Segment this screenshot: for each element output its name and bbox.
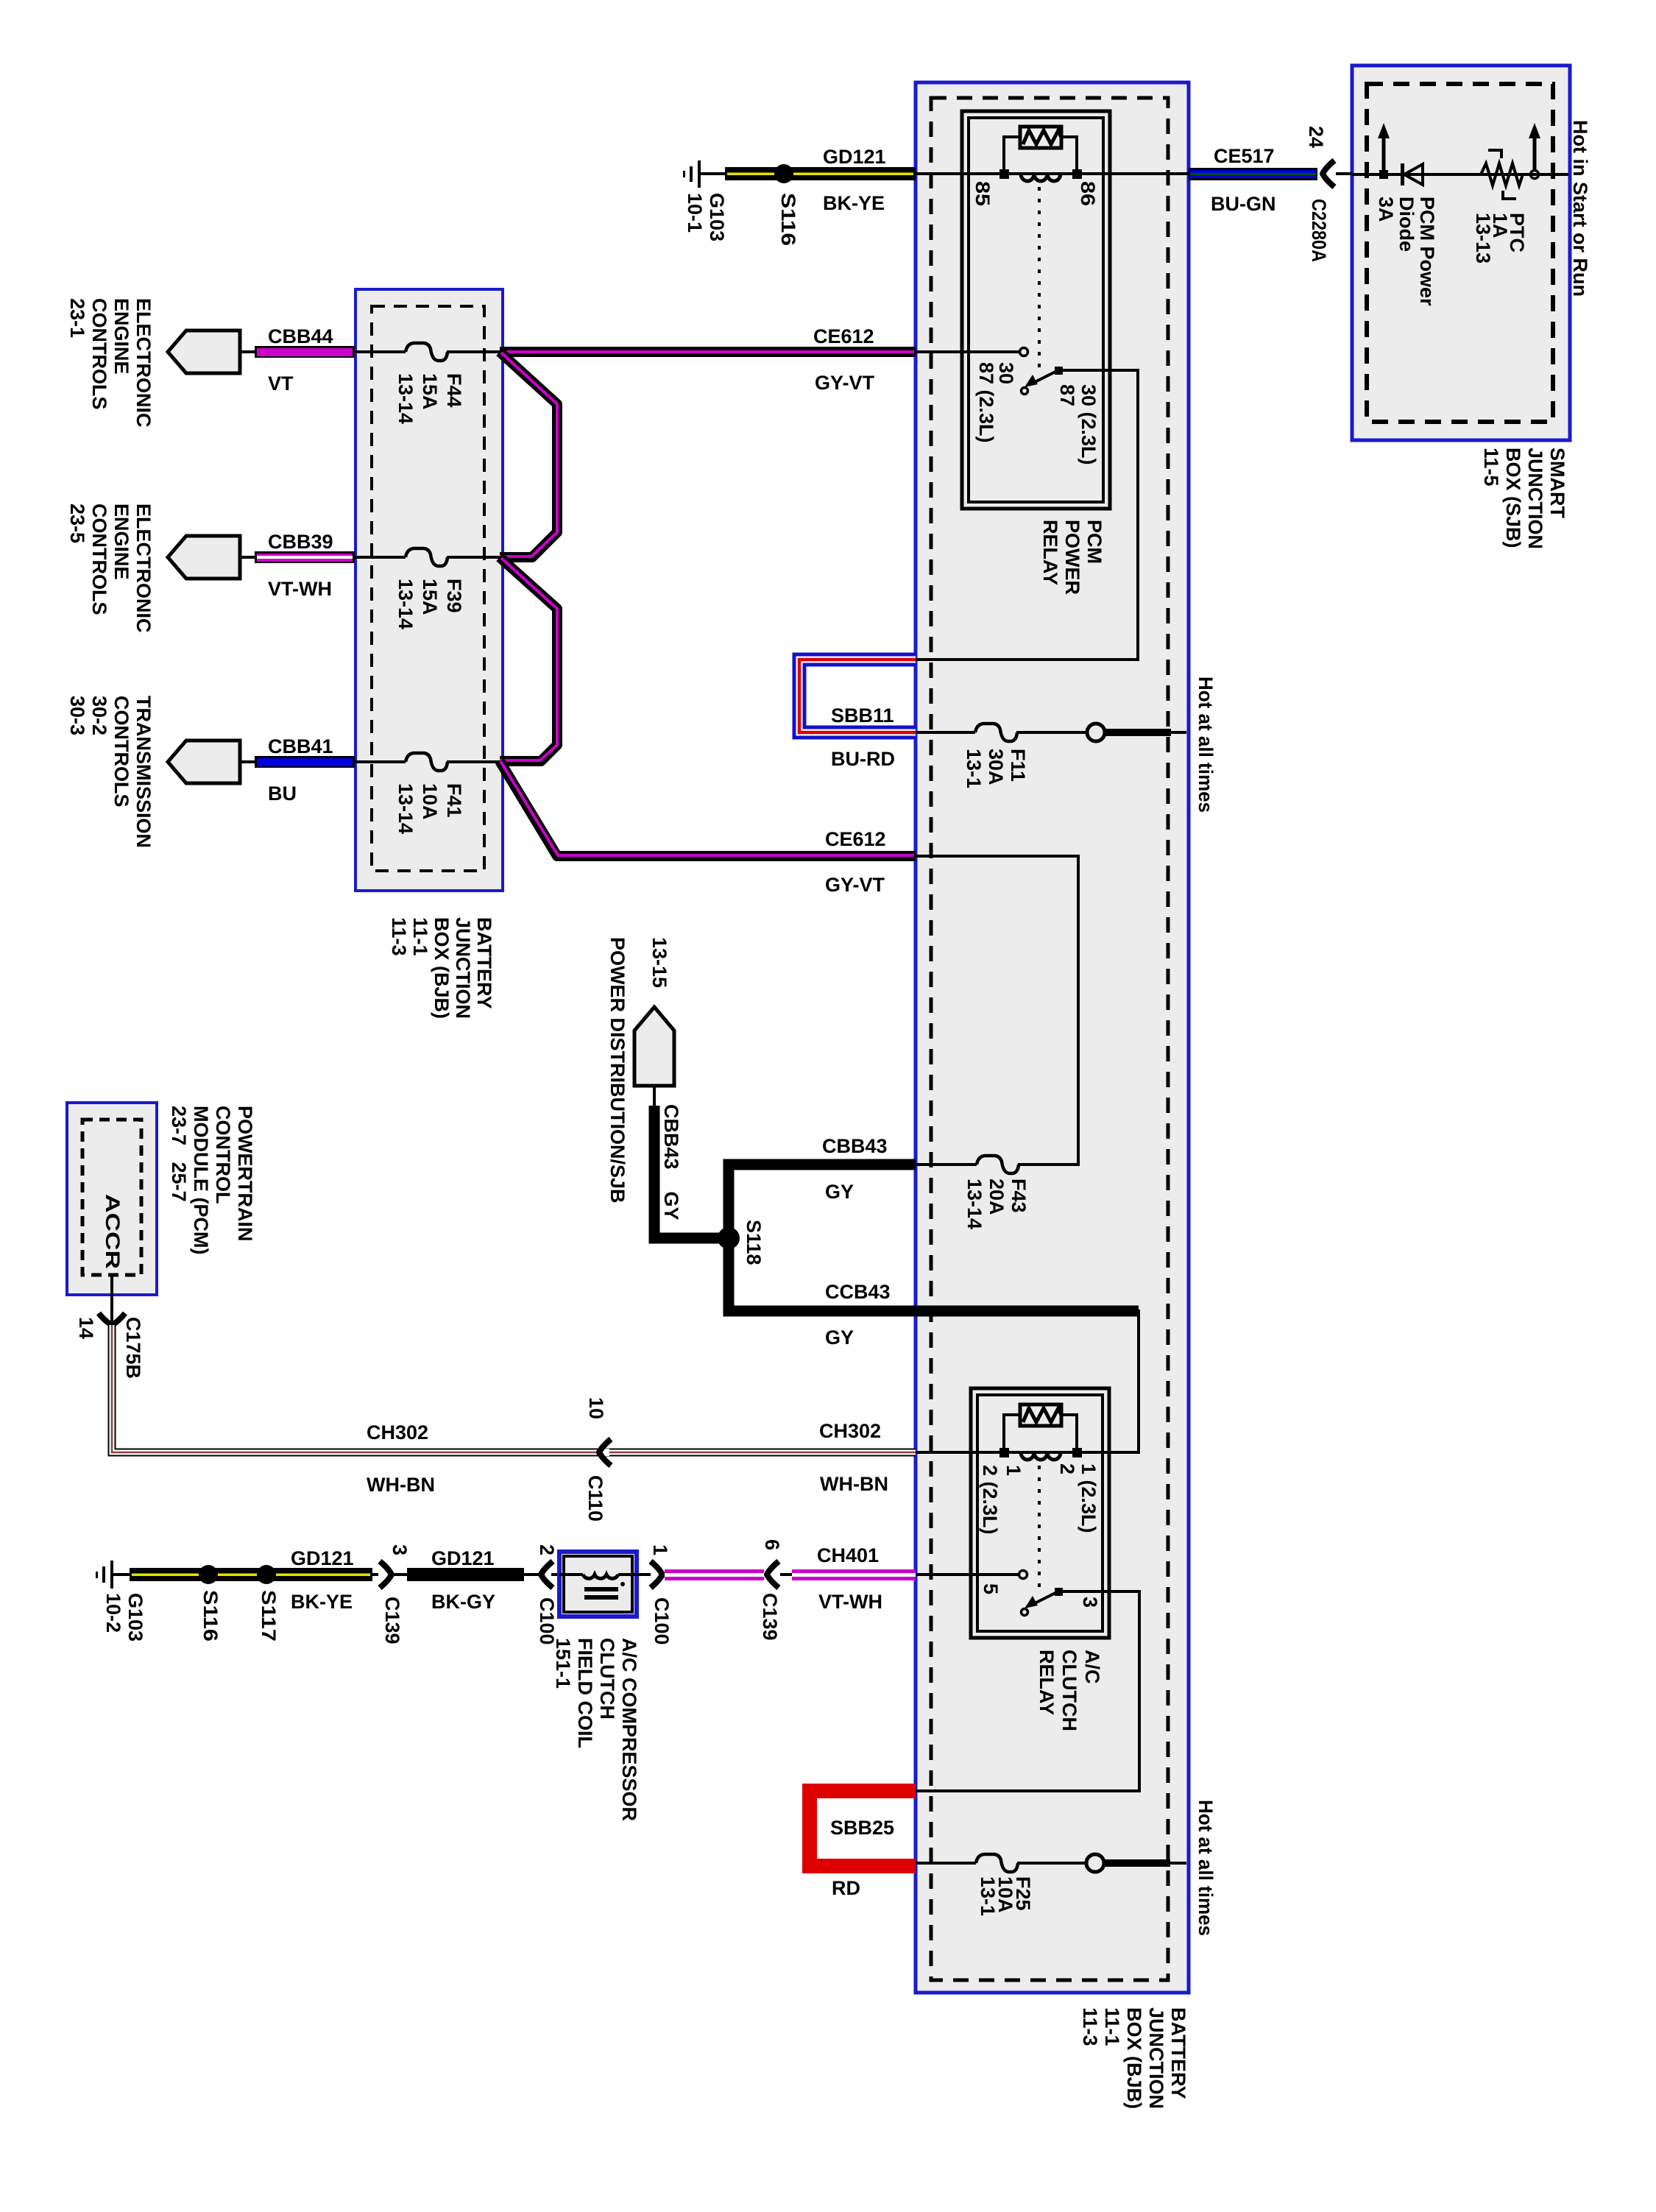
- wire into fuse: [355, 556, 406, 559]
- connector C139 pin 3: [372, 1544, 411, 1644]
- svg-text:VT-WH: VT-WH: [268, 578, 332, 600]
- relay 1 actuator dotted line: [1038, 187, 1041, 368]
- battery junction box BJB (left, fuses): [355, 289, 503, 891]
- svg-text:1 (2.3L): 1 (2.3L): [1078, 1463, 1100, 1533]
- connector C110 pin 10: [584, 1397, 611, 1522]
- svg-text:Hot at all times: Hot at all times: [1195, 676, 1217, 813]
- svg-text:GD121: GD121: [823, 146, 886, 168]
- label BATTERY JUNCTION BOX (BJB) 11-1 11-3 (bottom): [1079, 2007, 1189, 2109]
- svg-text:PCM Power: PCM Power: [1416, 197, 1438, 306]
- svg-text:Hot at all times: Hot at all times: [1195, 1800, 1217, 1936]
- svg-text:ACCR: ACCR: [102, 1194, 124, 1269]
- relay 2 switch arm: [1022, 1588, 1064, 1616]
- node ACCR: [102, 1194, 124, 1269]
- svg-text:Diode: Diode: [1395, 197, 1418, 252]
- svg-text:WH-BN: WH-BN: [367, 1474, 435, 1496]
- svg-text:WH-BN: WH-BN: [820, 1473, 888, 1495]
- svg-text:GY-VT: GY-VT: [825, 874, 885, 896]
- wire CE612 to relay pin 30: [916, 350, 1019, 353]
- svg-text:C139: C139: [381, 1597, 403, 1644]
- node ELECTRONIC 23-5: [66, 503, 155, 633]
- wire GD121 BK-YE (top): [725, 146, 916, 214]
- pin labels 30 / 87 (2.3L): [975, 362, 1017, 443]
- wire CE612 GY-VT (top run): [500, 325, 916, 394]
- svg-text:87 (2.3L): 87 (2.3L): [975, 362, 997, 443]
- svg-text:S117: S117: [258, 1590, 280, 1642]
- svg-text:2: 2: [1056, 1463, 1078, 1474]
- wire CE612 GY-VT (bottom run): [500, 761, 916, 896]
- svg-text:POWER DISTRIBUTION/SJB: POWER DISTRIBUTION/SJB: [606, 937, 629, 1204]
- label A/C COMPRESSOR CLUTCH FIELD COIL 151-1: [552, 1638, 640, 1821]
- splice S116: [774, 164, 799, 246]
- svg-text:C110: C110: [584, 1475, 606, 1522]
- relay 2 output routing wire: [916, 1591, 1139, 1791]
- svg-text:BU-GN: BU-GN: [1211, 193, 1276, 215]
- svg-text:13-14: 13-14: [394, 783, 417, 834]
- label POWERTRAIN CONTROL MODULE (PCM): [168, 1106, 256, 1254]
- node POWER DISTRIBUTION/SJB 13-15: [606, 937, 670, 1204]
- wire bundle F44-F39: [500, 352, 557, 557]
- svg-text:87: 87: [1056, 384, 1078, 406]
- svg-text:CE612: CE612: [825, 828, 886, 850]
- wire fuse to bus: [447, 350, 501, 353]
- svg-text:VT: VT: [268, 372, 294, 395]
- svg-text:BOX (SJB): BOX (SJB): [1502, 448, 1524, 548]
- svg-text:CONTROLS: CONTROLS: [88, 503, 110, 615]
- svg-text:13-14: 13-14: [963, 1179, 986, 1229]
- wire CBB43 GY (vertical from arrow): [654, 1104, 729, 1238]
- bus terminal (Hot at all times): [1087, 724, 1186, 741]
- svg-text:5: 5: [980, 1583, 1002, 1594]
- svg-text:POWERTRAIN: POWERTRAIN: [234, 1106, 256, 1242]
- PCM Power Diode 3A: [1375, 163, 1438, 306]
- svg-text:A/C COMPRESSOR: A/C COMPRESSOR: [618, 1638, 640, 1821]
- svg-text:15A: 15A: [419, 579, 441, 615]
- relay 2 actuator dotted line: [1038, 1466, 1041, 1589]
- svg-text:30: 30: [995, 362, 1017, 384]
- svg-text:S116: S116: [199, 1590, 222, 1642]
- wire CBB39 VT-WH: [255, 531, 355, 600]
- svg-text:G103: G103: [124, 1593, 146, 1642]
- svg-text:CH302: CH302: [819, 1420, 881, 1442]
- wire SBB25 RD loop: [810, 1791, 916, 1899]
- wire CCB43 inside box: [916, 1311, 1139, 1452]
- svg-text:JUNCTION: JUNCTION: [1524, 448, 1546, 549]
- svg-text:2: 2: [536, 1544, 558, 1555]
- svg-text:BK-GY: BK-GY: [431, 1591, 495, 1613]
- svg-text:RD: RD: [832, 1877, 860, 1899]
- smart junction box SJB: [1352, 66, 1570, 440]
- ground G103 10-2: [96, 1561, 146, 1642]
- wire into fuse F11: [916, 731, 975, 734]
- connector arrow CBB41: [168, 741, 259, 783]
- svg-text:3A: 3A: [1375, 197, 1397, 222]
- svg-text:BOX (BJB): BOX (BJB): [431, 917, 453, 1019]
- svg-text:G103: G103: [706, 193, 728, 241]
- label PCM POWER RELAY: [1039, 520, 1105, 595]
- svg-text:CE612: CE612: [813, 325, 874, 347]
- battery junction box BJB (tall): [916, 82, 1189, 1993]
- relay 2 pin 5 contact: [1019, 1571, 1027, 1579]
- svg-text:10-2: 10-2: [102, 1593, 124, 1633]
- svg-text:GD121: GD121: [291, 1547, 354, 1569]
- connector C175B pin 14: [75, 1275, 144, 1379]
- svg-text:13-1: 13-1: [977, 1876, 999, 1916]
- svg-text:BU: BU: [268, 782, 297, 805]
- node ELECTRONIC 23-1: [66, 298, 155, 428]
- connector C2280A pin 24: [1305, 126, 1352, 262]
- wire to relay pin 85: [916, 172, 1004, 175]
- svg-text:CBB43 GY: CBB43 GY: [660, 1104, 682, 1220]
- wire VT-WH (coil to C139): [665, 1569, 764, 1580]
- svg-text:S118: S118: [743, 1220, 765, 1265]
- wire fuse to bus: [447, 556, 501, 559]
- relay 1 output routing wire: [916, 370, 1138, 660]
- svg-text:BOX (BJB): BOX (BJB): [1123, 2007, 1145, 2109]
- svg-text:A/C: A/C: [1081, 1650, 1103, 1684]
- svg-text:CH401: CH401: [817, 1544, 879, 1566]
- svg-text:CBB43: CBB43: [822, 1135, 888, 1157]
- svg-text:23-1: 23-1: [66, 298, 88, 338]
- svg-text:CONTROLS: CONTROLS: [88, 298, 110, 410]
- svg-text:14: 14: [75, 1317, 97, 1339]
- wire F43 to CE612: [916, 856, 1078, 1165]
- wire pin 86 to CE517: [1077, 172, 1189, 175]
- svg-text:BK-YE: BK-YE: [291, 1591, 353, 1613]
- relay 1 switch arm: [1022, 367, 1064, 395]
- wire into fuse F43: [916, 1163, 977, 1166]
- wire CE517 BU-GN: [1189, 145, 1317, 215]
- svg-text:CONTROL: CONTROL: [212, 1106, 234, 1204]
- svg-text:86: 86: [1077, 181, 1099, 206]
- svg-text:1: 1: [1002, 1465, 1025, 1476]
- svg-text:BATTERY: BATTERY: [473, 917, 495, 1009]
- svg-text:SBB25: SBB25: [830, 1817, 894, 1839]
- PTC 1A 13-13: [1472, 150, 1528, 264]
- svg-text:Hot in Start or Run: Hot in Start or Run: [1569, 120, 1591, 297]
- svg-text:CBB39: CBB39: [268, 531, 333, 553]
- svg-text:S116: S116: [777, 193, 799, 246]
- svg-text:30-3: 30-3: [66, 696, 88, 735]
- wire CH302 WH-BN: [112, 1325, 916, 1496]
- svg-text:11-3: 11-3: [1079, 2007, 1101, 2046]
- svg-text:CBB44: CBB44: [268, 325, 333, 347]
- wire CH401 VT-WH: [780, 1544, 916, 1613]
- SJB feed arrow (right): [1529, 123, 1540, 179]
- svg-text:CE517: CE517: [1214, 145, 1275, 167]
- svg-text:151-1: 151-1: [552, 1638, 574, 1689]
- svg-text:C2280A: C2280A: [1308, 199, 1330, 262]
- net Hot at all times (top): [1195, 676, 1217, 813]
- svg-text:11-1: 11-1: [1101, 2007, 1123, 2046]
- net Hot in Start or Run: [1569, 120, 1591, 297]
- fuse F39 15A: [394, 548, 465, 629]
- svg-text:CONTROLS: CONTROLS: [110, 696, 132, 808]
- pin 5: [980, 1583, 1002, 1594]
- A/C clutch relay box: [971, 1388, 1109, 1638]
- ground G103 10-1: [683, 160, 728, 241]
- pin labels 30 (2.3L) / 87: [1056, 384, 1100, 465]
- svg-text:30A: 30A: [985, 749, 1007, 785]
- svg-text:CLUTCH: CLUTCH: [596, 1638, 618, 1720]
- A/C compressor clutch field coil: [559, 1552, 637, 1616]
- svg-text:BATTERY: BATTERY: [1167, 2007, 1189, 2099]
- relay 1 coil: [999, 137, 1082, 181]
- label A/C CLUTCH RELAY: [1036, 1650, 1103, 1731]
- wire into fuse: [355, 760, 406, 763]
- connector arrow POWER DISTRIBUTION/SJB: [634, 1007, 674, 1107]
- svg-text:VT-WH: VT-WH: [818, 1591, 882, 1613]
- svg-text:20A: 20A: [986, 1179, 1008, 1215]
- wire CH401 to relay pin 5: [916, 1573, 1019, 1576]
- label BATTERY JUNCTION BOX (BJB) 11-1 11-3 (left): [388, 917, 495, 1019]
- wire CBB41 BU: [255, 735, 355, 805]
- svg-text:ELECTRONIC: ELECTRONIC: [132, 298, 155, 428]
- svg-text:CBB41: CBB41: [268, 735, 333, 757]
- node TRANSMISSION 30-3: [66, 696, 155, 848]
- connector C139 pin 6: [759, 1539, 783, 1641]
- svg-text:GY: GY: [825, 1181, 854, 1203]
- svg-text:BU-RD: BU-RD: [831, 748, 895, 770]
- pin labels 1 (2.3L) / 2: [1056, 1463, 1100, 1533]
- wire GD121 BK-YE (bottom): [130, 1547, 372, 1613]
- wire F25 to bus: [1017, 1862, 1087, 1865]
- wire F11 to bus: [1016, 731, 1088, 734]
- svg-text:3: 3: [389, 1544, 411, 1555]
- svg-text:CCB43: CCB43: [825, 1281, 891, 1303]
- svg-text:13-14: 13-14: [394, 579, 417, 629]
- svg-text:SMART: SMART: [1546, 448, 1568, 518]
- svg-text:POWER: POWER: [1061, 520, 1083, 595]
- splice S116: [199, 1565, 222, 1642]
- connector arrow CBB39: [168, 536, 259, 579]
- connector arrow CBB44: [168, 331, 259, 373]
- svg-text:10: 10: [585, 1397, 607, 1419]
- wire CH302 into coil pin: [916, 1451, 1004, 1454]
- wire CCB43 GY (to A/C relay): [729, 1232, 916, 1349]
- bus terminal (Hot at all times, bottom): [1086, 1854, 1186, 1872]
- svg-text:2 (2.3L): 2 (2.3L): [979, 1465, 1001, 1535]
- pin 3: [1079, 1597, 1101, 1608]
- SJB feed arrow (left): [1378, 123, 1390, 179]
- wire CBB43 GY (to F43): [729, 1135, 916, 1244]
- svg-text:13-1: 13-1: [963, 749, 985, 788]
- svg-text:MODULE (PCM): MODULE (PCM): [190, 1106, 212, 1254]
- svg-text:F43: F43: [1008, 1179, 1030, 1213]
- svg-text:C175B: C175B: [122, 1317, 144, 1379]
- wire fuse to bus: [447, 760, 501, 763]
- svg-text:10-1: 10-1: [684, 193, 706, 233]
- svg-text:11-3: 11-3: [388, 917, 410, 956]
- wire SBB11 BU-RD loop: [799, 660, 916, 770]
- svg-text:ENGINE: ENGINE: [110, 503, 132, 580]
- svg-text:13-14: 13-14: [394, 373, 417, 424]
- wire CBB44 VT: [255, 325, 355, 395]
- fuse F41 10A: [394, 753, 465, 834]
- splice S117: [257, 1565, 280, 1642]
- fuse F11 30A: [963, 724, 1029, 788]
- fuse F25 10A: [976, 1854, 1034, 1916]
- svg-text:FIELD COIL: FIELD COIL: [574, 1638, 596, 1748]
- svg-text:RELAY: RELAY: [1036, 1650, 1058, 1715]
- svg-text:JUNCTION: JUNCTION: [452, 917, 474, 1019]
- wire into fuse: [355, 350, 406, 353]
- svg-text:BK-YE: BK-YE: [823, 192, 885, 214]
- svg-text:11-1: 11-1: [409, 917, 431, 956]
- svg-text:JUNCTION: JUNCTION: [1145, 2007, 1167, 2109]
- svg-text:F11: F11: [1007, 749, 1029, 782]
- relay 1 pin 30 contact: [1020, 348, 1028, 356]
- svg-text:10A: 10A: [419, 783, 441, 820]
- fuse F44 15A: [394, 343, 465, 424]
- svg-text:RELAY: RELAY: [1039, 520, 1061, 585]
- resistor (relay 1 suppression): [1020, 127, 1061, 148]
- svg-text:GD121: GD121: [431, 1547, 495, 1569]
- wire bundle F39-F41: [500, 557, 557, 761]
- wire GD121 BK-GY: [393, 1547, 524, 1613]
- svg-text:GY: GY: [825, 1326, 854, 1349]
- fuse F43 20A: [963, 1156, 1030, 1229]
- pin 85: [972, 181, 994, 206]
- splice S118: [718, 1220, 765, 1265]
- connector C100 pin 1: [637, 1544, 673, 1645]
- svg-text:6: 6: [761, 1539, 783, 1550]
- svg-text:F41: F41: [443, 783, 465, 818]
- svg-text:CLUTCH: CLUTCH: [1058, 1650, 1080, 1731]
- svg-text:23-5: 23-5: [66, 503, 88, 543]
- svg-text:85: 85: [972, 181, 994, 206]
- powertrain control module PCM: [67, 1103, 157, 1295]
- svg-text:15A: 15A: [419, 373, 441, 410]
- relay 2 coil: [999, 1415, 1082, 1460]
- SJB internal wire (Hot in Start or Run): [1352, 173, 1568, 176]
- svg-text:1: 1: [649, 1544, 671, 1555]
- svg-text:PCM: PCM: [1083, 520, 1105, 564]
- svg-text:3: 3: [1079, 1597, 1101, 1608]
- svg-text:23-7 25-7: 23-7 25-7: [168, 1106, 190, 1202]
- svg-text:C139: C139: [759, 1593, 781, 1641]
- pin 86: [1077, 181, 1099, 206]
- op relay PCM POWER RELAY box: [962, 111, 1110, 509]
- svg-text:30 (2.3L): 30 (2.3L): [1078, 384, 1100, 465]
- svg-text:GY-VT: GY-VT: [815, 372, 875, 394]
- svg-text:ENGINE: ENGINE: [110, 298, 132, 375]
- resistor (relay 2 suppression): [1020, 1404, 1061, 1426]
- net Hot at all times (bottom): [1195, 1800, 1217, 1936]
- svg-text:13-15: 13-15: [648, 937, 670, 988]
- svg-text:CH302: CH302: [367, 1421, 428, 1444]
- svg-text:F39: F39: [443, 579, 465, 613]
- svg-text:F44: F44: [443, 373, 465, 408]
- svg-text:11-5: 11-5: [1480, 448, 1502, 487]
- pin labels 1 / 2 (2.3L): [979, 1465, 1025, 1535]
- svg-text:ELECTRONIC: ELECTRONIC: [132, 503, 155, 633]
- svg-text:30-2: 30-2: [88, 696, 110, 735]
- svg-text:13-13: 13-13: [1472, 213, 1494, 264]
- label SMART JUNCTION BOX (SJB) 11-5: [1480, 448, 1568, 549]
- svg-text:SBB11: SBB11: [831, 704, 894, 727]
- svg-text:TRANSMISSION: TRANSMISSION: [132, 696, 155, 848]
- svg-text:24: 24: [1305, 126, 1327, 148]
- svg-text:C100: C100: [651, 1597, 673, 1645]
- connector C100 pin 2: [524, 1544, 558, 1645]
- wire into fuse F25: [916, 1862, 976, 1865]
